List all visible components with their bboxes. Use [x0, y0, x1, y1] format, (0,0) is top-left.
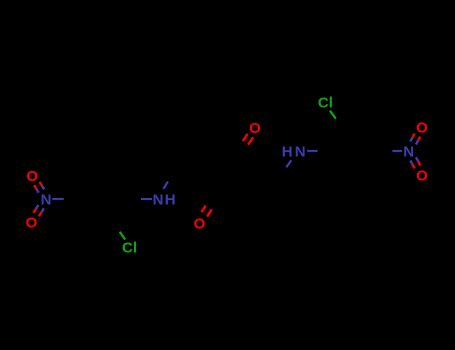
bond C=O upper ketone, red half double: [243, 134, 248, 141]
svg-text:O: O: [26, 215, 38, 232]
bond C-Cl right, green half: [330, 111, 336, 119]
svg-text:O: O: [416, 119, 428, 136]
bond O=N upper (right nitro), double: [413, 134, 415, 138]
svg-text:O: O: [416, 167, 428, 184]
svg-text:O: O: [249, 120, 261, 137]
svg-text:Cl: Cl: [122, 240, 137, 257]
bond N=O lower (left nitro), double: [36, 205, 38, 209]
bond C(aryl)-N left amine, blue half: [141, 198, 152, 200]
bond N-C(aryl) right amine, blue half: [307, 150, 317, 152]
svg-text:N: N: [153, 192, 164, 209]
bond N-C(ring) left amine, blue half diagonal: [163, 182, 168, 189]
svg-text:O: O: [26, 168, 38, 185]
svg-text:O: O: [194, 215, 206, 232]
svg-text:N: N: [41, 191, 52, 208]
bond N-C(ring) right amine, blue half diagonal: [286, 160, 291, 167]
svg-text:Cl: Cl: [318, 95, 333, 112]
svg-text:H: H: [165, 192, 176, 209]
bond O=N upper (left nitro), double: [34, 185, 36, 189]
bond C-Cl left, green half: [120, 232, 126, 240]
bond N-C(aryl) left nitro, blue half: [52, 198, 64, 200]
svg-text:N: N: [295, 143, 306, 160]
bond N=O lower (right nitro), double: [410, 160, 412, 164]
svg-text:H: H: [282, 143, 293, 160]
svg-text:N: N: [403, 143, 414, 160]
bond C-N right nitro, blue half: [392, 150, 402, 152]
bond C=O lower ketone, red half double: [202, 206, 206, 213]
